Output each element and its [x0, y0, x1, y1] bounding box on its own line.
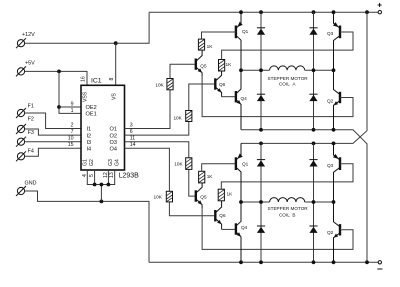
svg-text:7: 7	[71, 129, 74, 135]
connector GND	[16, 180, 37, 196]
svg-text:STEPPER MOTOR: STEPPER MOTOR	[268, 206, 309, 211]
diode D2 b	[257, 202, 265, 262]
wire +5V to pin16	[25, 71, 87, 85]
wire Q2b base stub	[340, 229, 342, 231]
svg-text:IC1: IC1	[91, 78, 102, 85]
svg-text:1K: 1K	[207, 174, 214, 179]
wire +12V to rail riser	[25, 12, 150, 43]
svg-text:G4: G4	[114, 159, 120, 166]
svg-text:9: 9	[71, 102, 74, 108]
svg-text:F4: F4	[28, 149, 34, 155]
wire bridge A bottom rail	[241, 130, 367, 262]
svg-text:G3: G3	[108, 159, 114, 166]
svg-text:STEPPER MOTOR: STEPPER MOTOR	[268, 76, 309, 81]
svg-text:16: 16	[81, 76, 87, 82]
svg-text:+12V: +12V	[22, 32, 35, 38]
node gnd bus 5	[93, 183, 97, 187]
transistor Q6	[215, 71, 225, 97]
wire top supply rail	[149, 11, 378, 13]
node btm Q4b	[239, 260, 243, 264]
wire O1 pin3 to R10K	[125, 90, 171, 129]
resistor R1K d	[218, 189, 233, 201]
node +5V branch	[57, 70, 61, 74]
wire F4 to I4	[25, 148, 81, 156]
svg-text:4: 4	[82, 174, 88, 177]
node coil B Q3b	[332, 200, 336, 204]
svg-text:1K: 1K	[207, 44, 214, 49]
node +12V to pin8 junction	[114, 41, 118, 45]
wire F1 to I1	[25, 113, 81, 129]
node topB Q3b	[332, 142, 336, 146]
svg-text:1: 1	[71, 108, 74, 114]
transistor Q4 b	[236, 202, 248, 262]
wire Q6 emitter to Q4 base	[222, 96, 235, 98]
svg-text:8: 8	[109, 78, 115, 81]
node btmA D2	[259, 128, 263, 132]
svg-text:Q3: Q3	[327, 163, 334, 168]
wire R10K to Q5 base	[170, 64, 195, 78]
svg-text:Q6: Q6	[219, 82, 226, 87]
node gnd bus mid	[100, 183, 104, 187]
wire Q1 base from R1K	[235, 31, 236, 33]
wire OE2 pin	[59, 106, 81, 108]
svg-text:O4: O4	[110, 147, 117, 153]
svg-text:G1: G1	[83, 159, 89, 166]
node coil A D3	[312, 68, 316, 72]
node btm D2b	[259, 260, 263, 264]
svg-text:O1: O1	[110, 127, 117, 133]
transistor Q2	[327, 70, 340, 130]
svg-text:6: 6	[130, 129, 133, 135]
wire O3 pin11 to R10K c	[125, 142, 189, 158]
node coil B Q1b	[239, 200, 243, 204]
wire R10K b to Q6 base	[189, 84, 214, 111]
transistor Q1 b	[236, 143, 249, 202]
svg-text:10K: 10K	[174, 162, 183, 167]
svg-text:I4: I4	[87, 147, 92, 153]
connector F2	[16, 117, 34, 135]
inductor stepper coil A	[268, 66, 309, 87]
node rail right vertical	[365, 10, 369, 14]
wire Q5 emitter to Q2 base loop	[202, 73, 353, 117]
wire GND run	[25, 191, 149, 262]
wire O2 pin6 to R10K b	[125, 122, 189, 136]
inductor stepper coil B	[268, 198, 309, 218]
svg-text:13: 13	[109, 172, 115, 178]
connector F3	[16, 130, 34, 147]
resistor R10K b	[173, 111, 191, 122]
svg-text:Q6: Q6	[219, 213, 226, 218]
resistor R10K a	[155, 79, 173, 90]
wire bridge B top rail	[241, 12, 367, 143]
node rail D1	[259, 10, 263, 14]
svg-text:OE2: OE2	[86, 105, 97, 111]
svg-text:L293B: L293B	[119, 172, 140, 179]
node GND IC junction	[100, 200, 104, 204]
wire Q6b emitter to Q4b base	[222, 228, 235, 230]
transistor Q3	[327, 12, 340, 70]
svg-text:Q1: Q1	[242, 29, 249, 34]
connector F4	[16, 149, 34, 162]
connector +5V	[16, 61, 35, 77]
transistor Q5	[196, 50, 207, 76]
svg-text:VSS: VSS	[83, 91, 89, 102]
wire +5V down to OE pins	[59, 71, 81, 113]
wire R1K d to Q3b base loop	[221, 164, 353, 189]
wire IC ground pins	[87, 170, 114, 201]
node topB D1b	[259, 142, 263, 146]
svg-text:F2: F2	[28, 117, 34, 123]
wire Q5b emitter to Q2b base loop	[202, 205, 353, 250]
svg-text:1K: 1K	[227, 192, 234, 197]
connector +12V	[16, 32, 35, 48]
wire coil row B right	[305, 201, 334, 203]
wire bottom rail	[149, 261, 378, 263]
node coil A Q3	[332, 68, 336, 72]
svg-text:GND: GND	[25, 180, 37, 186]
diode D1	[257, 12, 265, 70]
node btmA Q2	[332, 128, 336, 132]
node coil B D1b	[259, 200, 263, 204]
diode D4 b	[309, 202, 317, 262]
node coil A Q1	[239, 68, 243, 72]
svg-text:VS: VS	[112, 93, 118, 100]
transistor Q4	[236, 70, 247, 130]
wire R10K d to Q6b base	[169, 202, 214, 216]
node topB D3b	[312, 142, 316, 146]
svg-text:COIL B: COIL B	[279, 212, 296, 217]
resistor R1K a	[198, 39, 213, 50]
svg-text:3: 3	[130, 122, 133, 128]
node btm D4b	[312, 260, 316, 264]
svg-text:O3: O3	[110, 140, 117, 146]
svg-text:10: 10	[68, 136, 74, 142]
svg-text:Q5: Q5	[200, 194, 207, 199]
diode D4	[309, 70, 317, 130]
svg-text:2: 2	[71, 122, 74, 128]
wire Q3 base stub	[340, 31, 342, 33]
connector F1	[16, 104, 34, 119]
node rail D3	[312, 10, 316, 14]
wire F3 to I3	[25, 141, 81, 143]
resistor R1K b	[219, 60, 233, 72]
svg-text:O2: O2	[110, 133, 117, 139]
svg-text:15: 15	[68, 142, 74, 148]
node btm right vertical	[365, 260, 369, 264]
node coil A D1	[259, 68, 263, 72]
wire coil row A left	[241, 69, 270, 71]
svg-text:F1: F1	[28, 104, 34, 110]
svg-text:12: 12	[103, 172, 109, 178]
wire F2 to I2	[25, 129, 81, 135]
wire coil row A right	[305, 69, 334, 71]
svg-text:F3: F3	[28, 130, 34, 136]
transistor Q3 b	[327, 143, 340, 202]
wire Q3b base stub	[340, 163, 342, 165]
node rail Q3	[332, 10, 336, 14]
svg-text:I3: I3	[87, 140, 92, 146]
diode D3	[309, 12, 317, 70]
svg-text:10K: 10K	[154, 195, 163, 200]
resistor R10K c	[174, 158, 192, 170]
svg-text:I2: I2	[87, 133, 92, 139]
wire Q2 base stub	[340, 97, 342, 99]
svg-text:I1: I1	[87, 127, 92, 133]
wire R1K b to Q3 base loop	[222, 32, 353, 60]
diode D1 b	[257, 143, 265, 202]
svg-text:1K: 1K	[226, 62, 233, 67]
terminal minus	[377, 261, 382, 269]
transistor Q2 b	[327, 202, 340, 262]
node coil B D3b	[312, 200, 316, 204]
node btmA D4	[312, 128, 316, 132]
node btm Q2b	[332, 260, 336, 264]
svg-text:Q2: Q2	[327, 98, 334, 103]
wire R1K c to Q1b base	[202, 164, 235, 172]
wire R10K c to Q5b base	[189, 169, 195, 196]
svg-text:Q1: Q1	[242, 161, 249, 166]
node rail Q1	[239, 10, 243, 14]
svg-text:Q3: Q3	[327, 31, 334, 36]
wire pin8 drop	[115, 43, 117, 85]
node gnd bus 12	[107, 183, 111, 187]
diode D3 b	[309, 143, 317, 202]
wire O4 pin14 to R10K d	[125, 148, 170, 191]
svg-text:COIL A: COIL A	[279, 82, 296, 87]
transistor Q6 b	[215, 201, 226, 230]
wire R1K to Q1 base	[202, 32, 235, 39]
svg-text:Q4: Q4	[241, 96, 248, 101]
diode D2	[257, 70, 265, 130]
svg-text:10K: 10K	[155, 82, 164, 87]
svg-text:14: 14	[130, 142, 136, 148]
wire coil row B left	[241, 201, 270, 203]
transistor Q1	[236, 12, 249, 70]
svg-text:11: 11	[130, 136, 135, 142]
svg-text:+5V: +5V	[25, 61, 35, 67]
svg-text:Q5: Q5	[200, 63, 207, 68]
terminal +	[378, 3, 382, 14]
svg-text:5: 5	[89, 174, 95, 177]
svg-text:Q2: Q2	[327, 230, 334, 235]
resistor R10K d	[154, 191, 173, 202]
transistor Q5 b	[196, 183, 207, 208]
svg-text:10K: 10K	[173, 115, 182, 120]
node OE2 junction	[57, 105, 61, 109]
svg-text:OE1: OE1	[86, 112, 97, 118]
resistor R1K c	[199, 171, 214, 183]
svg-text:G2: G2	[89, 159, 95, 166]
svg-text:Q4: Q4	[241, 225, 248, 230]
op-amp U1 IC1 L293B box	[81, 78, 139, 180]
